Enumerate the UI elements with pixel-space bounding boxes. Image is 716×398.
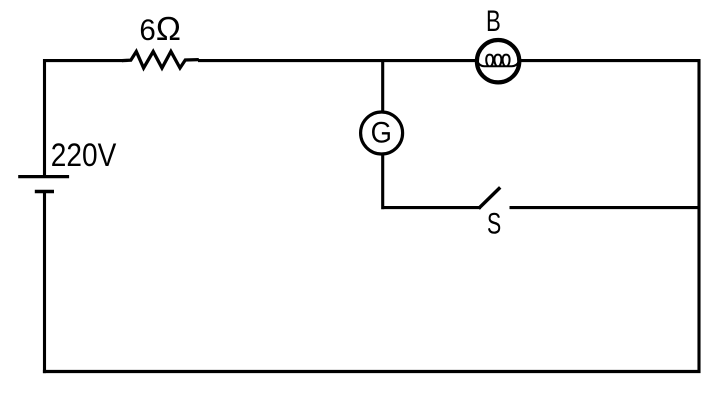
svg-text:S: S bbox=[487, 208, 501, 241]
wire: top left horizontal bbox=[43, 59, 123, 62]
wire: right vertical bbox=[697, 59, 700, 373]
switch S blade bbox=[479, 187, 501, 208]
resistor R 6ohm bbox=[122, 52, 199, 69]
svg-text:220V: 220V bbox=[51, 137, 117, 173]
svg-text:6Ω: 6Ω bbox=[139, 11, 180, 48]
wire: bulb to top right corner bbox=[521, 59, 701, 62]
battery positive long plate bbox=[18, 175, 69, 178]
lamp filament coil loops bbox=[486, 55, 493, 67]
wire: galvanometer to switch corner bbox=[381, 154, 481, 209]
lamp filament baseline bbox=[477, 62, 518, 67]
wire: resistor to bulb bbox=[198, 59, 476, 62]
lamp B circle bbox=[477, 40, 519, 82]
wire: bottom horizontal bbox=[43, 370, 701, 373]
wire: left vertical lower bbox=[43, 192, 46, 374]
wire: switch right side to right vertical bbox=[510, 206, 701, 209]
svg-text:G: G bbox=[371, 117, 392, 150]
svg-text:B: B bbox=[486, 5, 501, 38]
battery negative short plate bbox=[35, 190, 54, 194]
wire: left vertical upper bbox=[43, 59, 46, 176]
galvanometer G circle bbox=[361, 112, 403, 154]
wire: junction from top wire down to galvanometer bbox=[381, 59, 384, 111]
